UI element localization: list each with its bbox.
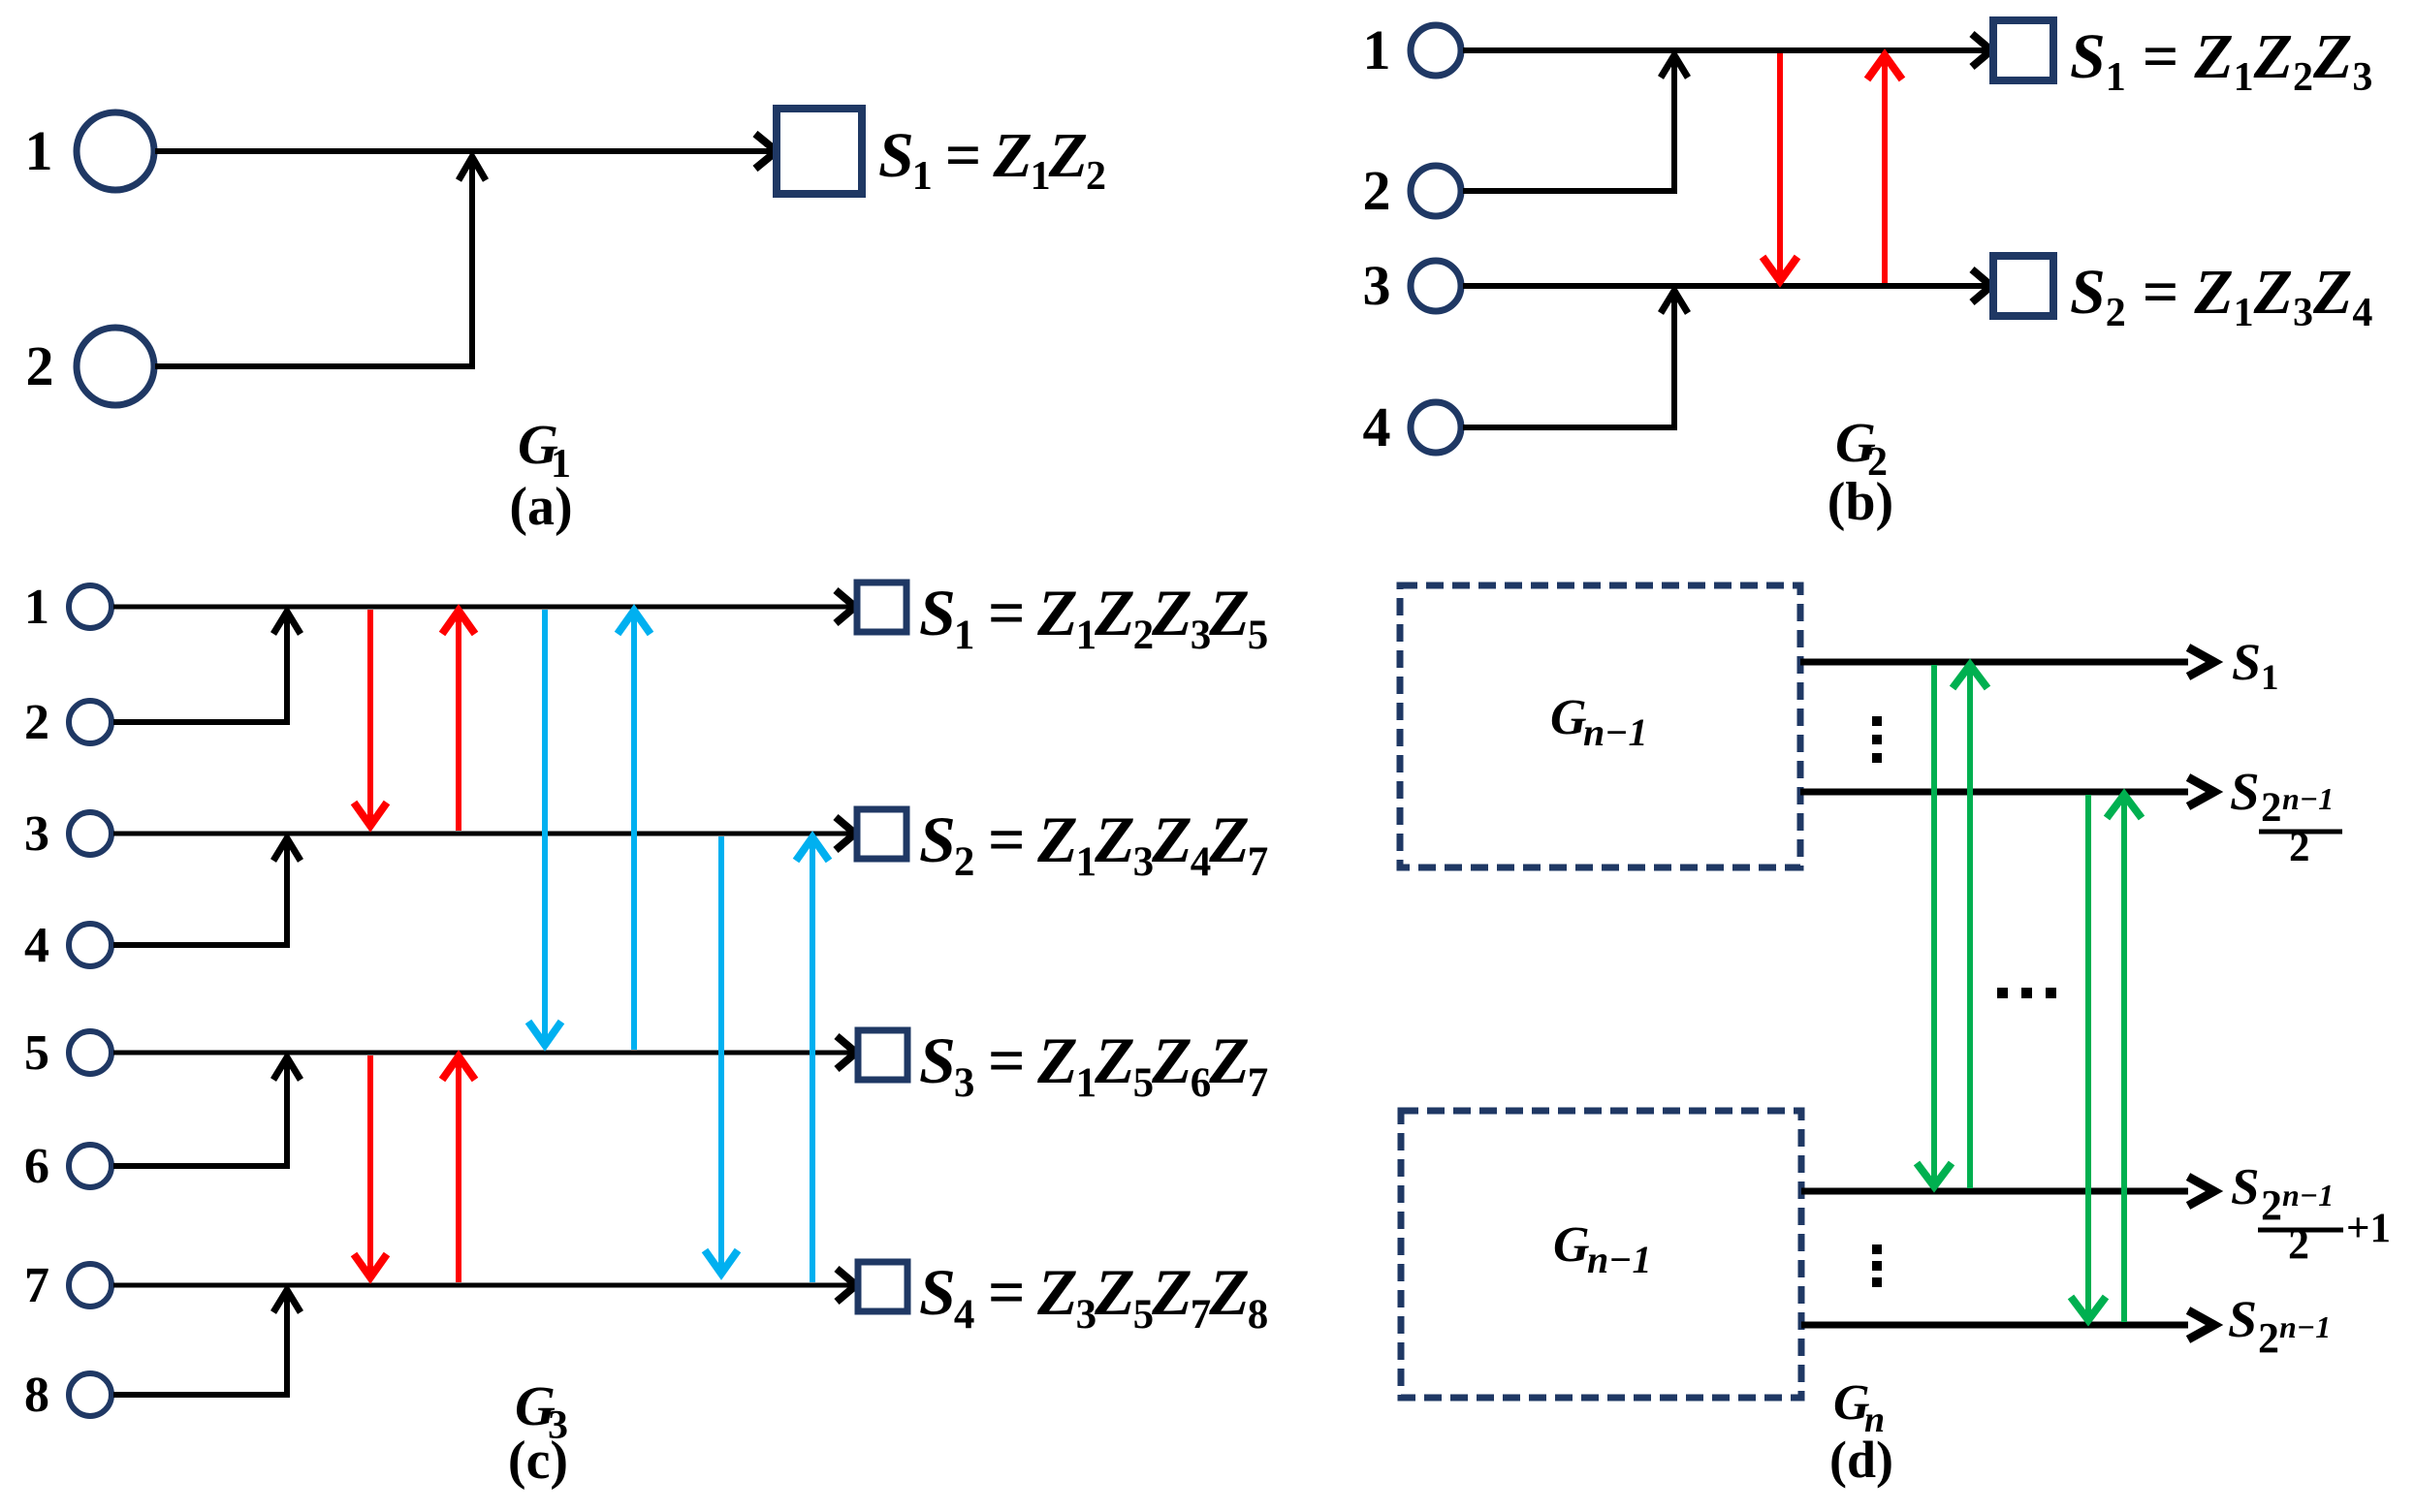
wire node1 to S1 square (a) [155,148,775,154]
node 4 circle (b) [1411,402,1461,453]
wire node1 to S1 square (b) [1463,47,1991,53]
wire node3 to S2 square (b) [1463,283,1991,289]
dashed box Gn-1 bottom (d) [1401,1111,1801,1398]
green CZ arrow rowD up to rowB (d) [2121,797,2127,1322]
wire node3 to S2 square (c) [113,832,855,836]
svg-text:n−1: n−1 [1587,1238,1651,1281]
svg-text:S4 = Z3Z5Z7Z8: S4 = Z3Z5Z7Z8 [919,1255,1268,1338]
node 4 circle (c) [69,924,111,966]
red CZ arrow row2 up to row1 (c) [456,613,461,831]
arrowhead into S1 square (c) [836,590,855,623]
stabilizer square S3 (c) [858,1030,907,1080]
wire node8 up to row4 (c) [113,1290,287,1395]
wire output row S2^(n-1)/2 (d) [1800,789,2188,796]
green CZ arrow rowB down to rowD (d) [2085,795,2091,1314]
arrowhead node2 edge into row1 (c) [273,612,301,634]
svg-text:(a): (a) [509,477,572,537]
svg-text:4: 4 [1363,395,1391,458]
node 1 circle (c) [69,585,111,628]
green CZ arrow rowC up to rowA (d) [1967,667,1973,1188]
blue CZ arrow row1 down to row3 (c) [542,610,548,1043]
svg-text:2: 2 [26,334,54,397]
svg-text:2: 2 [2288,1220,2309,1268]
red CZ arrow row1 down to row3 (b) [1777,53,1783,279]
arrowhead node4 edge into row2 (c) [273,838,301,861]
arrowhead row S1 (d) [2188,647,2214,677]
blue CZ arrow row2 down to row4 (c) [718,836,724,1272]
svg-text:2: 2 [2261,1181,2282,1229]
vertical dots between top rows (d) [1872,716,1882,726]
node 1 circle (a) [77,112,154,190]
svg-text:S1: S1 [2232,633,2279,698]
svg-text:+1: +1 [2346,1206,2391,1251]
arrowhead row S2^(n-1) (d) [2188,1310,2214,1339]
svg-text:G: G [1550,690,1587,745]
node 6 circle (c) [69,1145,111,1187]
svg-text:S: S [2231,1159,2259,1215]
arrowhead row S2^(n-1)/2 (d) [2188,777,2214,806]
node 2 circle (a) [77,328,154,405]
svg-text:4: 4 [24,918,49,973]
arrowhead into S1 square (a) [755,134,777,169]
svg-text:1: 1 [24,580,49,635]
svg-text:8: 8 [24,1368,49,1423]
node 3 circle (c) [69,812,111,855]
svg-text:2: 2 [2258,1314,2279,1362]
node 5 circle (c) [69,1031,111,1074]
wire node4 up to row2 (c) [113,838,287,945]
wire output row S2^(n-1)/2+1 (d) [1801,1188,2188,1195]
wire output row S2^(n-1) (d) [1801,1322,2188,1329]
svg-text:(b): (b) [1827,472,1893,532]
red CZ arrow row4 up to row3 (c) [456,1058,461,1282]
dashed box Gn-1 top (d) [1400,585,1800,867]
red CZ arrow row1 down to row2 (c) [367,610,373,824]
wire node4 up to row3 (b) [1463,291,1674,427]
node 2 circle (c) [69,701,111,743]
svg-text:(c): (c) [508,1431,568,1491]
svg-text:5: 5 [24,1025,49,1081]
svg-text:2: 2 [2289,825,2310,870]
arrowhead node4 edge into row3 (b) [1661,291,1688,313]
wire node2 up to row1 (c) [113,612,287,722]
arrowhead into S2 square (b) [1972,269,1991,302]
svg-text:n−1: n−1 [2282,1178,2334,1213]
stabilizer square S4 (c) [858,1262,907,1311]
svg-text:S2 = Z1Z3Z4Z7: S2 = Z1Z3Z4Z7 [919,803,1268,885]
svg-text:1: 1 [1363,18,1391,81]
arrowhead row S2^(n-1)/2+1 (d) [2188,1177,2214,1206]
stabilizer square S2 (b) [1993,256,2053,316]
svg-text:2: 2 [1363,159,1391,222]
stabilizer square S1 (c) [857,583,906,632]
arrowhead node8 edge into row4 (c) [273,1290,301,1312]
stabilizer square S1 (b) [1993,20,2053,80]
svg-text:S3 = Z1Z5Z6Z7: S3 = Z1Z5Z6Z7 [919,1024,1268,1106]
horizontal dots between green arrow pairs (d) [1997,988,2008,998]
svg-text:S1 = Z1Z2Z3Z5: S1 = Z1Z2Z3Z5 [919,576,1267,658]
green CZ arrow rowA down to rowC (d) [1931,665,1937,1182]
red CZ arrow row3 down to row4 (c) [367,1055,373,1276]
arrowhead node6 edge into row3 (c) [273,1057,301,1080]
wire node7 to S4 square (c) [113,1283,856,1288]
svg-text:S1 = Z1Z2Z3: S1 = Z1Z2Z3 [2070,21,2372,100]
wire node5 to S3 square (c) [113,1051,856,1055]
node 3 circle (b) [1411,261,1461,311]
node 2 circle (b) [1411,166,1461,216]
blue CZ arrow row3 up to row1 (c) [631,613,637,1050]
wire node2 up to node1 row (a) [155,156,472,366]
svg-text:7: 7 [24,1258,49,1313]
node 8 circle (c) [69,1373,111,1416]
stabilizer square S1 (a) [777,109,862,194]
wire node1 to S1 square (c) [113,605,855,610]
wire node2 up to row1 (b) [1463,55,1674,191]
arrowhead into S1 square (b) [1972,34,1991,67]
svg-text:3: 3 [24,806,49,862]
svg-text:2: 2 [24,695,49,750]
svg-text:3: 3 [1363,254,1391,317]
svg-text:G: G [1553,1217,1590,1273]
svg-text:n−1: n−1 [2279,1309,2331,1344]
node 7 circle (c) [69,1264,111,1307]
node 1 circle (b) [1411,25,1461,76]
blue CZ arrow row4 up to row2 (c) [810,839,815,1282]
arrowhead into S4 square (c) [837,1269,856,1302]
svg-text:S: S [2228,1290,2257,1348]
svg-text:(d): (d) [1829,1431,1893,1489]
arrowhead into S3 square (c) [837,1036,856,1069]
svg-text:n−1: n−1 [1583,710,1647,754]
svg-text:6: 6 [24,1139,49,1194]
arrowhead node2 edge into row1 (b) [1661,55,1688,78]
arrowhead into S2 square (c) [836,817,855,850]
svg-text:S: S [2230,762,2260,821]
svg-text:S1 = Z1Z2: S1 = Z1Z2 [878,120,1105,199]
wire node6 up to row3 (c) [113,1057,287,1166]
svg-text:S2 = Z1Z3Z4: S2 = Z1Z3Z4 [2070,257,2372,335]
red CZ arrow row3 up to row1 (b) [1882,57,1888,283]
wire output row S1 (d) [1800,659,2188,666]
stabilizer square S2 (c) [857,809,906,859]
svg-text:1: 1 [25,119,53,182]
svg-text:2: 2 [2261,785,2282,831]
arrowhead of CNOT edge node2 to row1 (a) [459,157,486,180]
svg-text:n−1: n−1 [2282,781,2334,816]
vertical dots between bottom rows (d) [1872,1244,1882,1254]
